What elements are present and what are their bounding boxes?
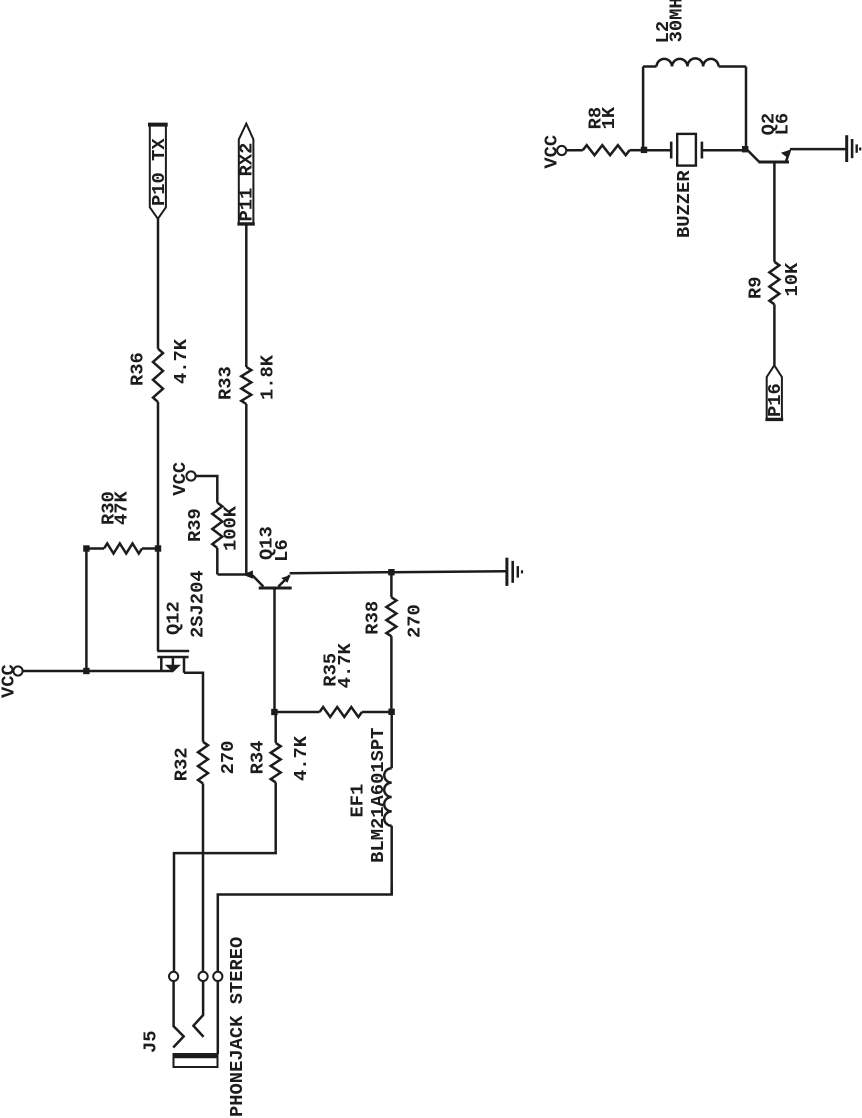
transistor Q12 — [157, 651, 189, 673]
value 10K — [781, 262, 803, 297]
svg-text:R36: R36 — [127, 352, 149, 386]
svg-text:Q12: Q12 — [163, 601, 185, 635]
value 270 — [404, 604, 426, 638]
junction — [641, 147, 647, 153]
value L6 — [772, 113, 794, 136]
label R34 — [246, 741, 268, 775]
ground — [507, 558, 522, 586]
label BUZZER — [673, 170, 695, 238]
wire — [273, 589, 276, 712]
label R35 — [319, 653, 341, 687]
resistor R35 — [274, 707, 391, 717]
connector J5 phonejack — [174, 1054, 218, 1067]
svg-text:J5: J5 — [139, 1030, 161, 1053]
svg-text:P16: P16 — [764, 383, 786, 417]
wire — [790, 148, 846, 151]
svg-text:R33: R33 — [214, 366, 236, 400]
value 47K — [111, 490, 133, 525]
svg-text:4.7K: 4.7K — [170, 338, 192, 384]
resistor R36 — [153, 349, 163, 402]
resistor R30 — [86, 544, 158, 554]
label Q2 — [757, 113, 779, 136]
svg-text:EF1: EF1 — [346, 784, 368, 818]
resistor R39 — [212, 503, 222, 575]
label R9 — [744, 276, 766, 299]
wire — [218, 573, 252, 576]
junction — [83, 545, 89, 551]
svg-text:30MHZ: 30MHZ — [665, 0, 687, 42]
junction — [742, 146, 748, 152]
label R32 — [170, 747, 192, 781]
svg-text:VCC: VCC — [0, 664, 20, 698]
value 270 — [217, 741, 239, 775]
label L2 — [652, 21, 674, 44]
svg-text:VCC: VCC — [169, 462, 191, 496]
wire — [391, 571, 505, 572]
power VCC node (top left) — [0, 664, 23, 698]
wire — [218, 886, 392, 976]
wire — [245, 224, 248, 367]
svg-text:VCC: VCC — [540, 135, 562, 169]
svg-text:PHONEJACK STEREO: PHONEJACK STEREO — [226, 937, 248, 1117]
wire — [157, 219, 160, 349]
value 1.8K — [257, 354, 279, 400]
resistor R32 — [198, 742, 208, 784]
value L6 — [271, 539, 293, 562]
svg-text:P11 RX2: P11 RX2 — [235, 143, 257, 222]
J5 sleeve terminal — [213, 972, 222, 981]
svg-text:47K: 47K — [111, 490, 133, 525]
wire — [290, 572, 392, 573]
wire — [85, 549, 88, 672]
label R33 — [214, 366, 236, 400]
svg-text:1K: 1K — [598, 106, 620, 129]
value 100K — [220, 505, 242, 551]
svg-text:4.7K: 4.7K — [290, 735, 312, 781]
wire — [195, 476, 217, 503]
J5 tip contact — [173, 976, 184, 1047]
J5 ring contact — [193, 976, 203, 1037]
power VCC node (R39 pull-up) — [169, 462, 196, 496]
svg-text:2SJ204: 2SJ204 — [187, 570, 209, 638]
value PHONEJACK STEREO — [226, 937, 248, 1117]
label R30 — [98, 491, 120, 525]
label R38 — [361, 601, 383, 635]
svg-text:P10 TX: P10 TX — [148, 138, 170, 206]
resistor R8 — [583, 145, 630, 155]
value 4.7K — [290, 735, 312, 781]
ferrite bead EF1 — [384, 713, 392, 894]
transistor Q13 — [243, 570, 292, 590]
inductor L2 — [643, 58, 746, 150]
connector flag P11 RX2 — [235, 124, 257, 224]
value BLM21A601SPT — [367, 728, 389, 863]
connector flag P10 TX — [148, 125, 170, 219]
svg-text:BUZZER: BUZZER — [673, 170, 695, 238]
value 1K — [598, 106, 620, 129]
wire — [773, 304, 776, 365]
label J5 — [139, 1030, 161, 1053]
label Q12 — [163, 601, 185, 635]
power VCC node (buzzer) — [540, 135, 566, 169]
resistor R34 — [271, 712, 281, 851]
junction — [388, 569, 394, 575]
svg-text:270: 270 — [217, 741, 239, 775]
wire — [22, 670, 173, 673]
svg-text:R32: R32 — [170, 747, 192, 781]
label R8 — [584, 107, 606, 130]
wire — [773, 163, 776, 262]
wire — [630, 149, 644, 152]
svg-text:R34: R34 — [246, 741, 268, 775]
resistor R38 — [386, 574, 396, 712]
junction — [388, 709, 394, 715]
svg-text:BLM21A601SPT: BLM21A601SPT — [367, 728, 389, 863]
svg-text:4.7K: 4.7K — [334, 642, 356, 688]
wire — [245, 404, 248, 575]
transistor Q2 — [747, 149, 791, 162]
wire — [566, 149, 583, 152]
svg-text:R39: R39 — [184, 508, 206, 542]
J5 ring terminal — [199, 972, 208, 981]
label R36 — [127, 352, 149, 386]
junction — [271, 709, 277, 715]
value 30MHZ — [665, 0, 687, 42]
J5 sleeve wire — [217, 976, 220, 1054]
wire — [184, 673, 203, 742]
value 4.7K — [334, 642, 356, 688]
svg-text:R9: R9 — [744, 276, 766, 299]
junction — [83, 668, 89, 674]
svg-text:270: 270 — [404, 604, 426, 638]
svg-text:R38: R38 — [361, 601, 383, 635]
J5 tip terminal — [169, 972, 178, 981]
label R39 — [184, 508, 206, 542]
ground — [847, 135, 861, 162]
wire — [157, 402, 160, 651]
svg-text:1.8K: 1.8K — [257, 354, 279, 400]
value 2SJ204 — [187, 570, 209, 638]
svg-text:L6: L6 — [772, 113, 794, 136]
wire — [174, 851, 276, 977]
junction — [155, 545, 161, 551]
buzzer BZ — [644, 134, 745, 166]
label Q13 — [255, 526, 277, 560]
value 4.7K — [170, 338, 192, 384]
label EF1 — [346, 784, 368, 818]
svg-text:L6: L6 — [271, 539, 293, 562]
resistor R33 — [241, 367, 251, 404]
svg-text:10K: 10K — [781, 262, 803, 297]
wire — [202, 784, 205, 977]
svg-text:100K: 100K — [220, 505, 242, 551]
connector flag P16 — [764, 365, 786, 419]
resistor R9 — [769, 262, 779, 305]
